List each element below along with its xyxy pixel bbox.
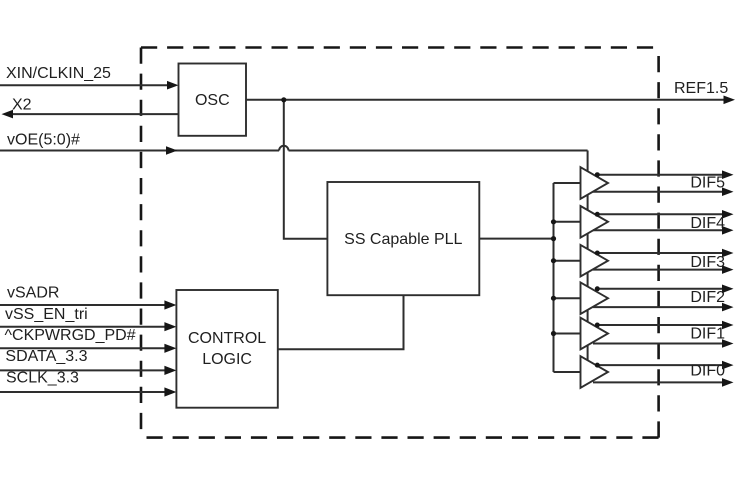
- wire hop over OSC-PLL vertical: [279, 146, 288, 151]
- svg-text:DIF5: DIF5: [690, 175, 725, 192]
- buffer DIF2 (output driver): [581, 282, 609, 314]
- wire CONTROL LOGIC to PLL: [278, 295, 404, 349]
- svg-text:DIF1: DIF1: [690, 326, 725, 343]
- arrowhead SDATA_3.3 into CONTROL LOGIC: [164, 366, 176, 375]
- arrowhead DIF5 true: [722, 170, 734, 179]
- arrowhead DIF0 complement: [722, 378, 734, 387]
- wire DIF0 true output: [597, 364, 722, 366]
- svg-text:SS Capable PLL: SS Capable PLL: [344, 231, 462, 248]
- wire ^CKPWRGD_PD# input: [0, 347, 167, 349]
- arrowhead DIF0 true: [722, 361, 734, 370]
- wire bus stub to buffer DIF2: [554, 297, 581, 299]
- node DIF0 output tap: [595, 363, 600, 368]
- svg-text:DIF3: DIF3: [690, 254, 725, 271]
- wire OSC output to REF1.5: [246, 99, 724, 101]
- node bus junction DIF1 tap: [551, 331, 556, 336]
- arrowhead REF1.5 output: [724, 96, 736, 105]
- wire bus stub to buffer DIF1: [554, 333, 581, 335]
- arrowhead XIN into OSC: [167, 81, 179, 90]
- wire vOE(5:0)# vertical run to buffer enables: [587, 151, 589, 373]
- wire DIF4 complement output: [593, 229, 723, 231]
- wire vOE(5:0)# horizontal: [0, 150, 588, 152]
- svg-text:OSC: OSC: [195, 92, 230, 109]
- svg-text:REF1.5: REF1.5: [674, 80, 728, 97]
- arrowhead DIF1 complement: [722, 339, 734, 348]
- arrowhead DIF5 complement: [722, 187, 734, 196]
- wire DIF3 complement output: [593, 269, 723, 271]
- wire XIN/CLKIN_25 input: [0, 84, 169, 86]
- arrowhead ^CKPWRGD_PD# into CONTROL LOGIC: [164, 344, 176, 353]
- svg-text:^CKPWRGD_PD#: ^CKPWRGD_PD#: [5, 327, 136, 344]
- arrowhead DIF3 complement: [722, 265, 734, 274]
- svg-text:SDATA_3.3: SDATA_3.3: [5, 348, 87, 365]
- block OSC: [179, 64, 247, 136]
- block CONTROL LOGIC: [176, 290, 277, 408]
- wire vSADR input: [0, 304, 167, 306]
- svg-text:DIF0: DIF0: [690, 362, 725, 379]
- arrowhead X2 pointing left: [2, 110, 14, 119]
- arrowhead DIF2 true: [722, 285, 734, 294]
- buffer DIF3 (output driver): [581, 245, 609, 277]
- node bus junction DIF3 tap: [551, 258, 556, 263]
- wire PLL output to buffer bus: [479, 238, 553, 240]
- arrowhead vSS_EN_tri into CONTROL LOGIC: [164, 322, 176, 331]
- chip boundary (dashed box): [141, 48, 659, 438]
- wire DIF5 true output: [597, 174, 722, 176]
- buffer DIF1 (output driver): [581, 318, 609, 350]
- wire DIF5 complement output: [593, 191, 723, 193]
- arrowhead DIF4 complement: [722, 226, 734, 235]
- svg-text:DIF2: DIF2: [690, 289, 725, 306]
- wire bus stub to buffer DIF4: [554, 221, 581, 223]
- arrowhead vOE direction: [166, 146, 178, 155]
- node DIF3 output tap: [595, 251, 600, 256]
- svg-text:LOGIC: LOGIC: [202, 351, 252, 368]
- wire bus stub to buffer DIF3: [554, 260, 581, 262]
- buffer DIF4 (output driver): [581, 206, 609, 238]
- arrowhead DIF4 true: [722, 210, 734, 219]
- wire SDATA_3.3 input: [0, 369, 167, 371]
- block SS Capable PLL: [327, 182, 479, 295]
- wire DIF1 true output: [597, 324, 722, 326]
- node bus junction DIF2 tap: [551, 296, 556, 301]
- node junction on REF wire: [281, 97, 286, 102]
- arrowhead DIF2 complement: [722, 303, 734, 312]
- arrowhead DIF3 true: [722, 249, 734, 258]
- wire SCLK_3.3 input: [0, 391, 167, 393]
- node bus junction DIF4 tap: [551, 219, 556, 224]
- svg-text:CONTROL: CONTROL: [188, 330, 266, 347]
- arrowhead SCLK_3.3 into CONTROL LOGIC: [164, 387, 176, 396]
- node bus junction PLL feed: [551, 236, 556, 241]
- wire X2 output from OSC: [11, 113, 179, 115]
- wire vSS_EN_tri input: [0, 326, 167, 328]
- arrowhead vSADR into CONTROL LOGIC: [164, 300, 176, 309]
- arrowhead DIF1 true: [722, 321, 734, 330]
- svg-text:X2: X2: [12, 96, 32, 113]
- wire DIF1 complement output: [593, 343, 723, 345]
- wire DIF0 complement output: [593, 381, 723, 383]
- buffer DIF0 (output driver): [581, 356, 609, 388]
- node DIF2 output tap: [595, 286, 600, 291]
- wire OSC node down to PLL input: [284, 100, 328, 239]
- svg-text:vSS_EN_tri: vSS_EN_tri: [5, 306, 88, 323]
- svg-text:vSADR: vSADR: [7, 285, 59, 302]
- wire DIF4 true output: [597, 213, 722, 215]
- buffer DIF5 (output driver): [581, 167, 609, 199]
- svg-text:SCLK_3.3: SCLK_3.3: [6, 369, 79, 386]
- wire buffer input bus vertical: [553, 183, 555, 372]
- node DIF1 output tap: [595, 323, 600, 328]
- wire bus stub to buffer DIF5: [554, 182, 581, 184]
- wire DIF3 true output: [597, 252, 722, 254]
- wire DIF2 true output: [597, 288, 722, 290]
- svg-text:vOE(5:0)#: vOE(5:0)#: [7, 131, 80, 148]
- svg-text:DIF4: DIF4: [690, 215, 725, 232]
- wire bus stub to buffer DIF0: [554, 371, 581, 373]
- wire DIF2 complement output: [593, 306, 723, 308]
- svg-text:XIN/CLKIN_25: XIN/CLKIN_25: [6, 65, 111, 82]
- node DIF4 output tap: [595, 212, 600, 217]
- node DIF5 output tap: [595, 172, 600, 177]
